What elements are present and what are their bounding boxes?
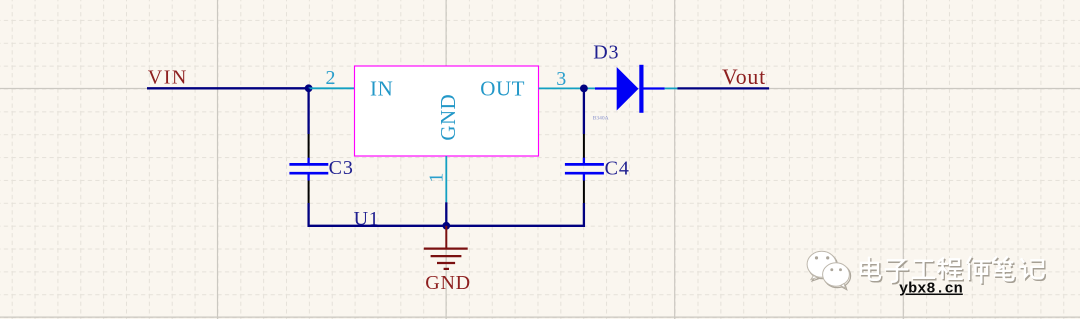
svg-text:GND: GND xyxy=(436,94,460,141)
svg-text:1: 1 xyxy=(425,173,447,183)
capacitor C4 xyxy=(565,134,604,203)
svg-text:ybx8.cn: ybx8.cn xyxy=(899,280,963,298)
ground symbol xyxy=(424,226,468,269)
svg-text:B340A: B340A xyxy=(593,116,609,122)
diode D3 xyxy=(595,65,665,113)
node junction bottom rail xyxy=(442,222,450,230)
svg-text:2: 2 xyxy=(326,67,336,89)
svg-text:IN: IN xyxy=(370,77,393,101)
capacitor C3 xyxy=(289,134,328,203)
diode pin stub xyxy=(665,87,678,89)
svg-text:3: 3 xyxy=(556,68,566,90)
svg-text:C4: C4 xyxy=(605,158,630,180)
watermark wechat icon xyxy=(807,251,850,289)
pin 3 of U1 xyxy=(539,87,596,89)
node junction at C4 top xyxy=(580,85,588,93)
svg-text:C3: C3 xyxy=(329,157,354,179)
node junction at C3 top xyxy=(305,84,313,92)
svg-text:GND: GND xyxy=(425,272,470,294)
wire junction1 down to C3 xyxy=(307,88,309,134)
svg-text:D3: D3 xyxy=(593,42,619,64)
svg-text:Vout: Vout xyxy=(722,65,766,89)
wire pin1 to bottom rail xyxy=(445,202,447,226)
op-amp U1 regulator body xyxy=(355,66,539,156)
wire C4 to bottom rail xyxy=(446,203,584,226)
wire VIN to junction xyxy=(147,87,310,89)
pin 1 of U1 (GND pin) xyxy=(445,156,447,202)
svg-text:VIN: VIN xyxy=(148,67,188,89)
wire C3 to bottom rail xyxy=(309,203,447,226)
wire diode to Vout xyxy=(677,87,769,89)
wire junction2 down to C4 xyxy=(583,88,585,134)
pin 2 of U1 xyxy=(309,87,355,89)
svg-text:OUT: OUT xyxy=(480,77,525,101)
